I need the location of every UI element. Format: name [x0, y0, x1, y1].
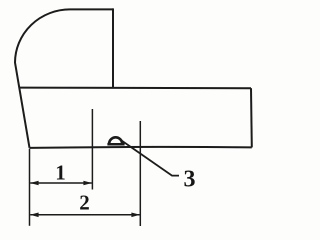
wire band top edge [19, 87, 251, 90]
wire band right edge [250, 88, 253, 147]
profile outline: top edge, rounded corner, left slant [15, 9, 113, 147]
dimension line 2 [30, 214, 140, 216]
bead detail base [107, 143, 124, 146]
svg-text:2: 2 [79, 191, 90, 215]
extension line right [139, 121, 141, 226]
svg-text:1: 1 [55, 160, 66, 184]
extension line left [29, 149, 31, 226]
bead detail outer arc [109, 137, 122, 143]
extension line middle [91, 109, 93, 190]
arrow dim2 right [131, 213, 140, 218]
svg-text:3: 3 [184, 166, 196, 192]
dimension line 1 [30, 182, 92, 184]
leader line to label 3 [122, 141, 180, 176]
wire top-right vertical of upper block [112, 8, 114, 88]
arrow dim1 left [30, 181, 39, 186]
wire band bottom edge [30, 146, 252, 149]
arrow dim2 left [30, 213, 39, 218]
arrow dim1 right [83, 181, 92, 186]
